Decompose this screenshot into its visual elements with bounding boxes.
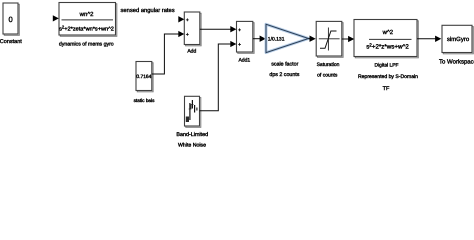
- svg-text:wn^2: wn^2: [79, 11, 94, 18]
- saturation icon: horizontal axis: [319, 38, 340, 40]
- arrowhead into To Workspace: [435, 36, 441, 42]
- svg-text:0.7164: 0.7164: [136, 74, 151, 80]
- Add block: [184, 12, 201, 46]
- noise icon: [189, 103, 191, 120]
- svg-text:dps 2 counts: dps 2 counts: [269, 72, 299, 78]
- svg-text:+: +: [186, 32, 189, 38]
- svg-text:s2+2*zeta*wn*s+wn^2: s2+2*zeta*wn*s+wn^2: [59, 25, 114, 33]
- svg-text:White Noise: White Noise: [178, 142, 206, 148]
- arrowhead into Add input 1: [178, 16, 184, 22]
- saturation icon: clipped line: [320, 31, 337, 48]
- fraction bar: [62, 19, 114, 21]
- svg-text:simGyro: simGyro: [447, 36, 470, 43]
- svg-text:Add1: Add1: [238, 57, 250, 63]
- input arrowhead into transfer-function block: [53, 15, 59, 21]
- svg-text:To Workspace: To Workspace: [439, 58, 474, 65]
- svg-text:scale factor: scale factor: [271, 61, 298, 67]
- Digital LPF transfer-function block: [354, 20, 418, 58]
- svg-text:w^2: w^2: [382, 29, 394, 36]
- svg-text:+: +: [186, 18, 189, 24]
- svg-text:Digital LPF: Digital LPF: [375, 63, 399, 69]
- svg-text:1/0.131: 1/0.131: [268, 36, 285, 42]
- svg-text:Add: Add: [187, 48, 196, 54]
- svg-text:Represented by S-Domain: Represented by S-Domain: [358, 74, 418, 80]
- svg-text:+: +: [238, 27, 241, 33]
- wire static bais -> Add input 2: [152, 34, 180, 74]
- arrowhead into Add1 input 1: [230, 26, 236, 32]
- wire Add1 -> gain: [253, 38, 260, 40]
- arrowhead into Saturation: [310, 36, 316, 42]
- Saturation block: [316, 21, 343, 57]
- wire Add -> Add1 input 1: [200, 28, 231, 30]
- arrowhead into gain: [260, 36, 266, 42]
- svg-text:Band-Limited: Band-Limited: [176, 132, 208, 138]
- Band-Limited White Noise block: [185, 96, 201, 127]
- Add1 block: [237, 21, 255, 53]
- svg-text:static bais: static bais: [134, 98, 155, 103]
- svg-text:+: +: [238, 42, 241, 48]
- arrowhead into Add1 input 2: [230, 41, 236, 47]
- svg-text:TF: TF: [383, 86, 390, 92]
- wire gain -> Saturation: [309, 38, 311, 40]
- gain triangle (scale factor): [266, 24, 309, 52]
- constant block "0" (Constant): [3, 3, 19, 35]
- svg-text:Constant: Constant: [0, 39, 22, 45]
- svg-text:s2+2*z*ws+w^2: s2+2*z*ws+w^2: [366, 42, 409, 50]
- arrowhead into Add input 2: [178, 31, 184, 37]
- svg-text:0: 0: [8, 15, 12, 24]
- transfer function block (dynamics of mems gyro): [59, 3, 117, 37]
- svg-text:Saturation: Saturation: [317, 62, 340, 68]
- wire Digital LPF -> To Workspace: [417, 38, 436, 40]
- saturation icon: vertical axis: [327, 28, 329, 51]
- svg-text:dynamics of mems gyro: dynamics of mems gyro: [59, 42, 114, 48]
- To Workspace block (simGyro): [442, 25, 473, 54]
- fraction bar: [369, 38, 412, 40]
- svg-text:sensed angular rates: sensed angular rates: [121, 7, 175, 14]
- wire Saturation -> Digital LPF: [342, 38, 349, 40]
- wire Band-Limited White Noise -> Add1 input 2: [200, 44, 232, 111]
- arrowhead into Digital LPF: [348, 36, 354, 42]
- constant block 0.7164 (static bais): [136, 62, 153, 92]
- svg-text:of counts: of counts: [317, 72, 338, 78]
